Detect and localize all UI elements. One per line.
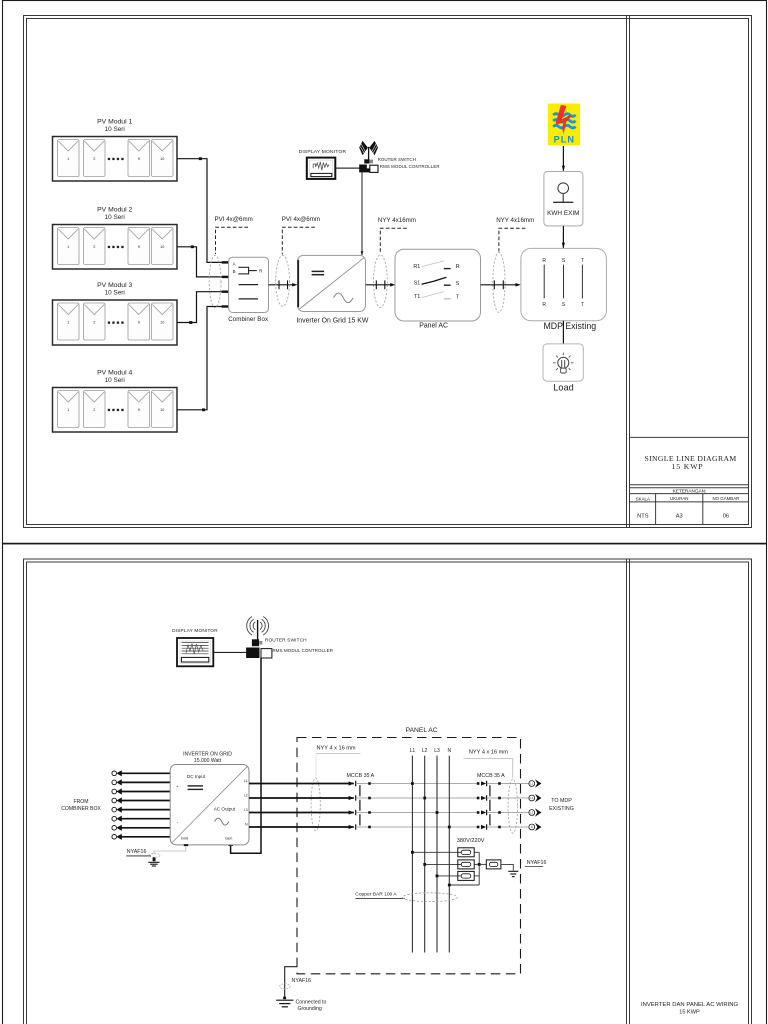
router mast (sheet2): [257, 620, 259, 643]
PLN logo lightning bolt: [556, 105, 572, 134]
svg-text:NYAF16: NYAF16: [292, 978, 312, 984]
copper bar ellipse: [402, 893, 457, 902]
svg-text:06: 06: [723, 513, 729, 519]
terminal dot after right breaker 1: [498, 782, 501, 785]
bus bar L1: [410, 748, 416, 952]
svg-text:S: S: [456, 281, 460, 287]
MDP Existing distribution box: [521, 248, 607, 320]
output flag N to MDP: [529, 823, 542, 832]
junction L2 bus arrester tap: [423, 863, 426, 866]
junction tick on PV4 wire: [202, 408, 205, 411]
arrowhead into KWH EXIM: [562, 166, 565, 172]
wire L1 bus to arrester 1: [412, 851, 457, 853]
svg-text:R: R: [456, 264, 460, 270]
wire RMS controller to inverter Gen port: [231, 658, 261, 853]
svg-text:S1: S1: [414, 281, 421, 287]
svg-text:Inverter On Grid 15 KW: Inverter On Grid 15 KW: [296, 317, 368, 324]
sheet 2 drawing frame outer: [24, 559, 752, 1024]
terminal dot after right breaker 2: [498, 797, 501, 800]
router antenna arcs (sheet2): [247, 617, 269, 636]
svg-text:AC Output: AC Output: [214, 807, 236, 812]
title block: top line: [630, 436, 750, 438]
DC string wire 3 from combiner: [121, 791, 170, 793]
svg-text:R: R: [542, 258, 546, 264]
arrester fuse 3: [458, 871, 474, 880]
MCCB left pole 4: [349, 824, 356, 829]
wire inverter output to Panel AC: [366, 284, 391, 286]
svg-text:T1: T1: [414, 294, 420, 300]
router connector blocks: [364, 159, 373, 163]
svg-text:Combiner Box: Combiner Box: [228, 316, 269, 323]
wire PV2 string output to combiner input 2: [177, 247, 222, 277]
svg-text:L3: L3: [244, 808, 248, 812]
DC wire 8 end flag: [112, 834, 122, 840]
cable label callout: PVI 4x@6mm: [215, 216, 253, 254]
breaker R1: [413, 261, 459, 270]
arrester fuse 1: [458, 848, 474, 857]
Gen terminal pad: [228, 844, 233, 846]
svg-text:10 Seri: 10 Seri: [105, 289, 125, 296]
destination label TO MDP EXISTING: [549, 798, 574, 812]
svg-text:9: 9: [138, 321, 140, 325]
wire router to inverter: [361, 172, 363, 255]
inverter AC sine symbol: [334, 293, 353, 303]
cable label callout: NYY 4x16mm: [378, 217, 416, 254]
wire L2 bus to arrester 2: [425, 863, 458, 865]
PV module array PV2 (10 panels in series): [53, 225, 178, 270]
cable ellipse on ground lead (left): [149, 853, 160, 857]
DC string wire 1 from combiner: [121, 772, 170, 774]
source label: FROM COMBINER BOX: [61, 799, 101, 812]
DC wire 3 end flag: [112, 788, 122, 794]
cable tick marks (panel-MDP): [494, 280, 503, 289]
svg-text:NYAF16: NYAF16: [127, 849, 147, 855]
breaker T1: [414, 292, 460, 301]
combiner input terminal pad 4: [222, 305, 229, 307]
svg-text:N: N: [531, 825, 533, 829]
sheet 2 drawing frame inner: [27, 562, 749, 1024]
DC string wire 4 from combiner: [121, 800, 170, 802]
KWH EXIM meter box: [544, 172, 583, 226]
sheet 1 drawing frame inner: [27, 19, 749, 525]
cable label NYY 4x16 (right): [463, 749, 512, 778]
PV module array PV1 (10 panels in series): [53, 137, 178, 182]
router switch box (sheet1): [359, 165, 378, 173]
router antenna fans (sheet1): [359, 141, 378, 155]
PV array label: PV Modul 4 / 10 Seri: [97, 369, 132, 384]
svg-text:RMS MODUL CONTROLLER: RMS MODUL CONTROLLER: [273, 648, 334, 653]
svg-text:10 Seri: 10 Seri: [105, 126, 125, 133]
arrowhead into MDP: [516, 283, 521, 287]
DC wire 2 end flag: [112, 779, 122, 785]
junction L1 bus arrester tap: [411, 851, 414, 854]
wire MCCB-left pole 4 to right MCCB: [356, 826, 477, 828]
earth ground symbol (inverter): [148, 857, 159, 866]
arrester fuse 2: [458, 860, 474, 869]
display monitor (sheet2): [177, 638, 213, 666]
Panel AC box: [395, 249, 481, 321]
junction N bus tie: [448, 884, 451, 887]
terminal dot after right breaker 3: [498, 811, 501, 814]
svg-text:380V/220V: 380V/220V: [457, 838, 485, 844]
svg-text:NO GAMBAR: NO GAMBAR: [712, 496, 739, 501]
wire MCCB-left pole 3 to right MCCB: [356, 812, 477, 814]
inverter Gnd terminal pad: [184, 844, 188, 846]
DC string wire 8 from combiner: [121, 836, 170, 838]
cable ellipse right (panel output): [508, 779, 517, 833]
arrowhead into inverter top: [361, 251, 364, 255]
inverter DC symbol (=): [312, 271, 325, 274]
MDP bus R: [542, 258, 546, 308]
svg-text:DISPLAY MONITOR: DISPLAY MONITOR: [299, 149, 347, 155]
sheet 1 drawing frame outer: [24, 16, 752, 528]
MCCB left pole 3: [349, 810, 356, 815]
bus bar L2: [422, 748, 428, 952]
wire arrester 2 to neutral tie: [474, 863, 479, 865]
svg-text:INVERTER DAN PANEL AC WIRING: INVERTER DAN PANEL AC WIRING: [641, 1002, 739, 1008]
svg-text:NYY 4x16mm: NYY 4x16mm: [378, 217, 416, 224]
svg-text:Load: Load: [553, 382, 573, 392]
svg-text:10 Seri: 10 Seri: [105, 377, 125, 384]
svg-text:L2: L2: [244, 793, 248, 797]
wire KWH EXIM to MDP Existing: [562, 226, 564, 248]
breaker S1: [414, 277, 460, 287]
svg-text:INVERTER ON GRID: INVERTER ON GRID: [183, 751, 232, 757]
wire PV4 string output to combiner input 4: [177, 307, 222, 410]
svg-text:9: 9: [138, 408, 140, 412]
combiner box U1: [229, 257, 269, 312]
cable ellipse combiner-inverter: [276, 255, 290, 306]
svg-text:9: 9: [138, 245, 140, 249]
arrester neutral tie bus: [478, 852, 480, 885]
svg-text:1: 1: [67, 245, 69, 249]
cable label callout: PVI 4x@6mm: [282, 216, 320, 255]
svg-text:1: 1: [67, 321, 69, 325]
wire display monitor to router (sheet1): [335, 167, 359, 169]
svg-text:15.000 Watt: 15.000 Watt: [194, 758, 222, 764]
AC output wire L2 from inverter to MCCB: [249, 797, 354, 799]
svg-text:B: B: [233, 269, 236, 274]
wire right breaker 1 to MDP flag: [487, 783, 530, 785]
terminal dot after left breaker 4: [368, 826, 371, 829]
svg-text:KETERANGAN:: KETERANGAN:: [673, 489, 707, 494]
inverter labels (sheet2): [183, 751, 232, 764]
svg-text:2: 2: [93, 245, 95, 249]
svg-text:A: A: [233, 262, 236, 267]
svg-text:T: T: [581, 302, 584, 308]
svg-text:L2: L2: [422, 748, 428, 754]
svg-text:2: 2: [93, 321, 95, 325]
junction N bus to row: [448, 826, 451, 829]
MCCB right tie bar: [489, 785, 491, 825]
arrowhead into Panel AC: [390, 283, 395, 287]
sheet 2 title column double line: [627, 559, 630, 1024]
svg-text:NYY 4 x 16 mm: NYY 4 x 16 mm: [317, 746, 356, 752]
column headers: [636, 496, 740, 501]
cable ellipse panel-MDP: [493, 252, 505, 312]
svg-text:1: 1: [67, 408, 69, 412]
svg-text:ROUTER SWITCH: ROUTER SWITCH: [265, 638, 307, 644]
NYAF16 grounding cable label (left): [126, 849, 151, 856]
cable ellipse left (panel input): [311, 778, 320, 831]
junction tick on PV2 wire: [191, 245, 194, 248]
svg-text:NYY 4 x 16 mm: NYY 4 x 16 mm: [469, 749, 508, 755]
output flag L1 to MDP: [529, 779, 542, 788]
svg-text:9: 9: [138, 157, 140, 161]
wire PLN grid to KWH EXIM meter: [562, 146, 564, 171]
svg-text:PVI 4x@6mm: PVI 4x@6mm: [282, 216, 320, 223]
MCCB left pole 2: [349, 795, 356, 800]
AC output wire L3 from inverter to MCCB: [249, 812, 354, 814]
title text: SINGLE LINE DIAGRAM 15 KWP: [644, 454, 736, 471]
sheet 2 title text: [641, 1002, 739, 1015]
cable ellipse inverter-panel: [374, 255, 388, 308]
wire MDP Existing to Load: [562, 321, 564, 344]
Panel AC dashed enclosure: [297, 738, 521, 974]
svg-text:ROUTER SWITCH: ROUTER SWITCH: [378, 157, 416, 162]
title block: column separators: [656, 494, 703, 525]
cable tick marks (inverter-panel): [376, 280, 385, 289]
bus bar L3: [434, 748, 440, 952]
wire inverter Gnd to earth: [154, 846, 186, 854]
svg-text:10 Seri: 10 Seri: [105, 214, 125, 221]
title block: keterangan band lines: [630, 485, 750, 502]
wire L3 bus to arrester 3: [437, 875, 458, 877]
junction tie bus row2: [478, 863, 481, 866]
svg-text:PVI 4x@6mm: PVI 4x@6mm: [215, 216, 253, 223]
svg-text:2: 2: [93, 157, 95, 161]
svg-text:Connected to: Connected to: [296, 1000, 327, 1006]
sheet 2 outline: [3, 544, 767, 1024]
Load box with lamp icon: [543, 344, 583, 381]
MCCB left pole 1: [349, 781, 356, 786]
combiner input terminal pad 1: [222, 261, 229, 263]
svg-text:R: R: [542, 302, 546, 308]
svg-text:15 KWP: 15 KWP: [679, 1009, 700, 1015]
svg-text:MCCB 35 A: MCCB 35 A: [347, 773, 375, 779]
svg-text:A3: A3: [676, 513, 683, 519]
PV array label: PV Modul 3 / 10 Seri: [97, 282, 132, 297]
combiner input terminal pad 3: [222, 291, 229, 293]
svg-text:N: N: [447, 748, 451, 754]
DC wire 1 end flag: [112, 770, 122, 776]
MCCB right pole 1: [477, 781, 487, 786]
arrowhead into inverter: [292, 283, 297, 287]
copper bar label: [355, 891, 405, 898]
wire right breaker 2 to MDP flag: [487, 797, 530, 799]
wire MCCB-left pole 2 to right MCCB: [356, 797, 477, 799]
wire MCCB-left pole 1 to right MCCB: [356, 783, 477, 785]
wire ground fuse to earth: [501, 864, 513, 870]
svg-text:UKURAN: UKURAN: [670, 496, 689, 501]
svg-text:PV Modul 4: PV Modul 4: [97, 369, 132, 376]
svg-text:MCCB 35 A: MCCB 35 A: [477, 773, 505, 779]
svg-text:EXISTING: EXISTING: [549, 806, 574, 812]
svg-text:R: R: [259, 269, 262, 274]
AC output wire N from inverter to MCCB: [249, 826, 354, 828]
wire PV3 string output to combiner input 3: [177, 292, 222, 323]
cable ellipse PV DC feed: [209, 255, 221, 307]
svg-text:PV Modul 1: PV Modul 1: [97, 118, 132, 125]
DC string wire 5 from combiner: [121, 809, 170, 811]
MDP bus T: [581, 258, 584, 308]
wire neutral bus to tie bus: [449, 884, 479, 886]
svg-text:Gen: Gen: [225, 836, 233, 841]
svg-text:MDP Existing: MDP Existing: [543, 321, 596, 331]
junction L3 bus arrester tap: [436, 875, 439, 878]
arrowhead into MDP from meter: [562, 243, 565, 249]
wire tie bus to ground fuse: [479, 863, 486, 865]
terminal dot after right breaker 4: [498, 826, 501, 829]
earth ground symbol (panel enclosure): [276, 997, 293, 1007]
svg-text:SKALA: SKALA: [636, 496, 650, 501]
ground fuse: [486, 860, 501, 869]
svg-text:NYY 4x16mm: NYY 4x16mm: [496, 217, 534, 224]
svg-text:L1: L1: [244, 779, 248, 783]
svg-text:KWH EXIM: KWH EXIM: [547, 210, 579, 217]
wire arrester 1 to neutral tie: [474, 851, 479, 853]
wire right breaker 4 to MDP flag: [487, 826, 530, 828]
svg-text:L3: L3: [434, 748, 440, 754]
svg-text:1: 1: [67, 157, 69, 161]
MCCB right pole 4: [477, 824, 487, 829]
router mast: [368, 147, 370, 160]
svg-text:2: 2: [93, 408, 95, 412]
PV array label: PV Modul 1 / 10 Seri: [97, 118, 132, 133]
svg-text:DC Input: DC Input: [187, 774, 206, 779]
svg-text:PANEL AC: PANEL AC: [406, 727, 438, 734]
AC output wire L1 from inverter to MCCB: [249, 783, 354, 785]
output flag L3 to MDP: [529, 808, 542, 817]
NYAF16 ground cable label (right): [525, 860, 547, 867]
junction L1 bus to row: [411, 782, 414, 785]
svg-text:L1: L1: [410, 748, 416, 754]
svg-text:TO MDP: TO MDP: [551, 798, 572, 804]
cable ellipse on grounding lead: [280, 984, 291, 989]
svg-text:Copper BAR 100 A: Copper BAR 100 A: [355, 891, 397, 897]
MCCB right pole 3: [477, 810, 487, 815]
svg-text:T: T: [581, 258, 584, 264]
inverter box (sheet2): [170, 765, 249, 845]
svg-text:10: 10: [160, 321, 164, 325]
grounding note: [296, 1000, 327, 1013]
svg-text:DISPLAY MONITOR: DISPLAY MONITOR: [172, 628, 218, 633]
svg-text:NTS: NTS: [637, 513, 649, 519]
terminal dot after left breaker 1: [368, 782, 371, 785]
wire right breaker 3 to MDP flag: [487, 812, 530, 814]
svg-text:PLN: PLN: [554, 134, 575, 144]
svg-text:15 KWP: 15 KWP: [671, 462, 703, 471]
inverter on-grid box: [298, 255, 366, 311]
DC string wire 7 from combiner: [121, 827, 170, 829]
combiner input terminal pad 2: [222, 276, 229, 278]
display monitor (sheet1): [307, 158, 336, 179]
svg-text:PV Modul 3: PV Modul 3: [97, 282, 132, 289]
MCCB left tie bar: [359, 785, 361, 825]
cable tick marks (combiner-inverter): [279, 280, 288, 289]
PV module array PV4 (10 panels in series): [53, 388, 178, 433]
wire combiner output to inverter DC input: [269, 284, 293, 286]
svg-text:Gnd: Gnd: [181, 836, 189, 841]
junction tick on PV3 wire: [189, 321, 192, 324]
DC wire 4 end flag: [112, 797, 122, 803]
cable label callout: NYY 4x16mm: [496, 217, 534, 252]
bus bar N: [447, 748, 451, 952]
svg-text:NYAF16: NYAF16: [527, 860, 547, 866]
router connector block (sheet2): [252, 639, 263, 646]
svg-text:10: 10: [160, 245, 164, 249]
terminal dot after left breaker 2: [368, 797, 371, 800]
DC wire 6 end flag: [112, 816, 122, 822]
svg-text:Grounding: Grounding: [298, 1006, 322, 1012]
PLN logo wave bars: [553, 114, 575, 128]
cable label NYY 4x16 (left): [316, 746, 360, 778]
junction tick on PV1 wire: [199, 157, 202, 160]
DC wire 5 end flag: [112, 807, 122, 813]
PV array label: PV Modul 2 / 10 Seri: [97, 206, 132, 221]
sheet 1 title column double line: [627, 16, 630, 528]
output flag L2 to MDP: [529, 794, 542, 803]
router switch box (sheet2): [246, 648, 272, 659]
svg-text:10: 10: [160, 408, 164, 412]
DC string wire 2 from combiner: [121, 781, 170, 783]
wire panel enclosure to grounding: [285, 967, 298, 997]
wire Panel AC to MDP Existing: [481, 284, 516, 286]
wire display monitor to router (sheet2): [213, 651, 246, 653]
junction L3 bus to row: [436, 811, 439, 814]
wire PV1 string output to combiner input 1: [177, 159, 222, 263]
MDP bus S: [562, 258, 566, 308]
MCCB right pole 2: [477, 795, 487, 800]
column values NTS / A3 / 06: [637, 513, 729, 519]
PV module array PV3 (10 panels in series): [53, 300, 178, 345]
DC wire 7 end flag: [112, 825, 122, 831]
wire arrester 3 to neutral tie: [474, 875, 479, 877]
svg-text:RMS MODUL CONTROLLER: RMS MODUL CONTROLLER: [380, 164, 440, 169]
PLN utility logo: [548, 104, 580, 146]
terminal dot after left breaker 3: [368, 811, 371, 814]
svg-text:COMBINER BOX: COMBINER BOX: [61, 806, 101, 812]
svg-text:FROM: FROM: [74, 799, 89, 805]
svg-text:10: 10: [160, 157, 164, 161]
earth ground symbol (panel neutral): [508, 871, 518, 876]
svg-text:PV Modul 2: PV Modul 2: [97, 206, 132, 213]
DC string wire 6 from combiner: [121, 818, 170, 820]
sheet 1 outline: [3, 1, 767, 544]
junction L2 bus to row: [423, 797, 426, 800]
svg-text:Panel AC: Panel AC: [419, 323, 448, 330]
svg-text:R1: R1: [413, 264, 420, 270]
